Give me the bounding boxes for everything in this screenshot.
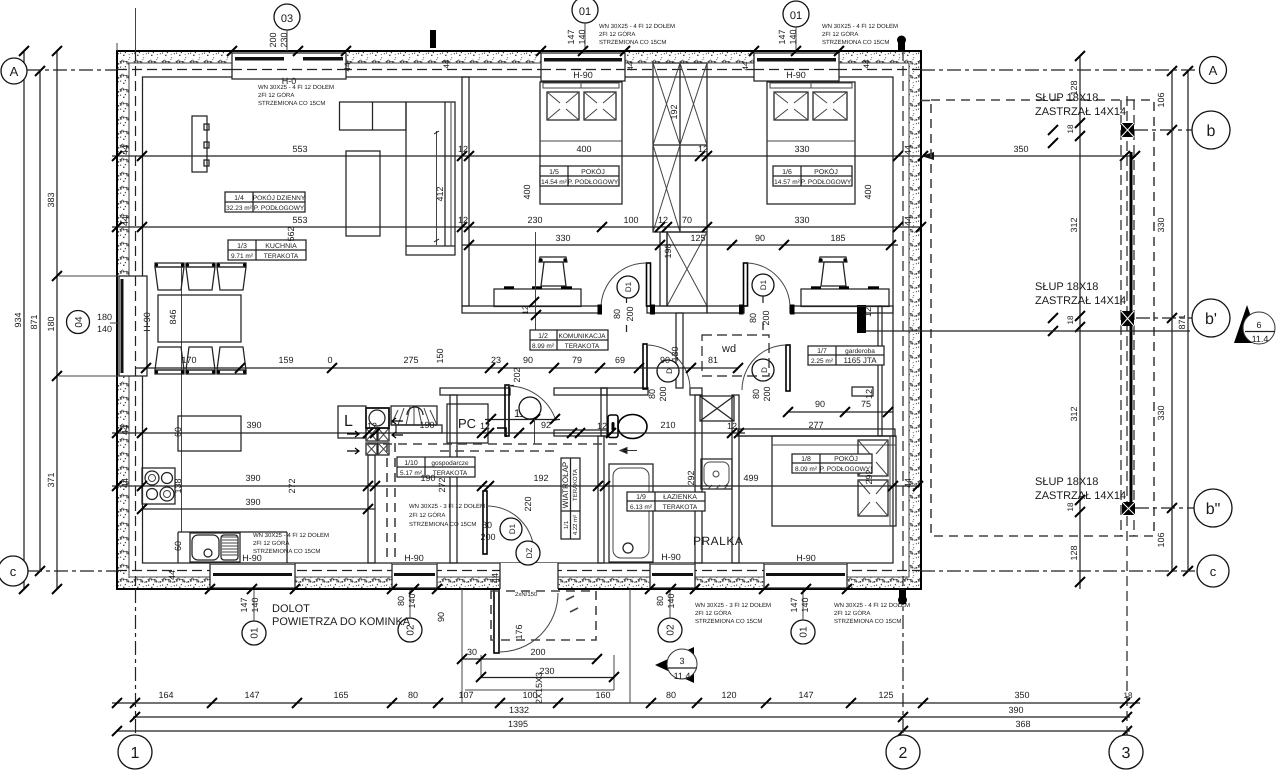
svg-text:147: 147 <box>239 597 249 612</box>
svg-text:1395: 1395 <box>508 719 528 729</box>
svg-text:18: 18 <box>1124 691 1133 700</box>
wall axis dashed top A <box>117 69 921 71</box>
svg-text:STRZEMIONA CO 15CM: STRZEMIONA CO 15CM <box>822 39 889 46</box>
svg-text:140: 140 <box>97 324 112 334</box>
svg-text:80: 80 <box>655 596 665 606</box>
svg-text:147: 147 <box>798 690 813 700</box>
door D1b bedroom 1/6 <box>739 263 795 330</box>
svg-text:871: 871 <box>1177 314 1187 329</box>
svg-text:846: 846 <box>168 309 178 324</box>
svg-text:44: 44 <box>903 216 913 226</box>
svg-text:350: 350 <box>1014 690 1029 700</box>
svg-text:STRZEMIONA CO 15CM: STRZEMIONA CO 15CM <box>695 618 762 625</box>
svg-text:STRZEMIONA CO 15CM: STRZEMIONA CO 15CM <box>409 521 476 528</box>
svg-text:106: 106 <box>1156 532 1166 547</box>
svg-text:b": b" <box>1206 501 1221 518</box>
svg-text:01: 01 <box>579 6 591 18</box>
svg-text:44: 44 <box>120 145 130 155</box>
kominek fireplace <box>366 406 442 433</box>
svg-text:PRALKA: PRALKA <box>693 534 743 548</box>
svg-text:WIATROŁAP: WIATROŁAP <box>561 462 570 509</box>
svg-text:185: 185 <box>830 233 845 243</box>
svg-text:44: 44 <box>120 478 130 488</box>
svg-text:75: 75 <box>861 399 871 409</box>
axis circles top <box>274 0 809 51</box>
svg-text:70: 70 <box>682 215 692 225</box>
svg-text:12: 12 <box>521 305 530 314</box>
svg-text:499: 499 <box>743 473 758 483</box>
svg-text:WN 30X25 - 3 FI 12 DOŁEM: WN 30X25 - 3 FI 12 DOŁEM <box>409 503 485 510</box>
svg-text:1: 1 <box>131 745 140 762</box>
svg-text:H-90: H-90 <box>786 70 806 80</box>
airflow arrows kitchen ducts <box>347 431 359 454</box>
svg-text:23: 23 <box>491 355 501 365</box>
svg-text:DOLOT: DOLOT <box>272 603 310 615</box>
svg-text:350: 350 <box>1013 144 1028 154</box>
svg-text:2: 2 <box>899 745 908 762</box>
svg-text:125: 125 <box>690 233 705 243</box>
svg-text:90: 90 <box>660 355 670 365</box>
svg-text:44: 44 <box>862 59 871 68</box>
chimney shaft block between bedrooms <box>653 63 707 232</box>
black chimney bar garderoba <box>857 305 866 333</box>
duct above niche <box>700 396 734 421</box>
svg-text:106: 106 <box>1156 92 1166 107</box>
svg-text:292: 292 <box>864 469 874 484</box>
dim row y486 <box>112 469 923 511</box>
svg-text:TERAKOTA: TERAKOTA <box>565 343 600 350</box>
svg-text:44: 44 <box>442 59 451 68</box>
wall segment right of bathroom door <box>690 388 702 395</box>
toilet corridor nook <box>608 415 647 454</box>
svg-text:553: 553 <box>292 144 307 154</box>
svg-text:92: 92 <box>541 420 551 430</box>
svg-text:80: 80 <box>647 389 657 399</box>
washbasin <box>701 459 732 489</box>
svg-text:330: 330 <box>555 233 570 243</box>
svg-text:44: 44 <box>903 478 913 488</box>
svg-text:368: 368 <box>1015 719 1030 729</box>
svg-text:12: 12 <box>458 215 468 225</box>
dim row 277 bedroom <box>736 420 896 436</box>
svg-text:02: 02 <box>666 624 677 636</box>
corridor south / bathroom north wall <box>440 388 510 395</box>
svg-text:140: 140 <box>407 593 417 608</box>
svg-text:400: 400 <box>576 144 591 154</box>
svg-text:H-90: H-90 <box>142 312 152 332</box>
svg-text:272: 272 <box>437 477 447 492</box>
svg-text:STRZEMIONA CO 15CM: STRZEMIONA CO 15CM <box>599 39 666 46</box>
chimney symbols top <box>430 30 907 605</box>
svg-text:30: 30 <box>467 647 477 657</box>
axis circles left <box>0 58 90 586</box>
dining table <box>158 295 241 342</box>
svg-text:44: 44 <box>120 216 130 226</box>
chairs top row <box>155 263 246 290</box>
svg-text:1/8: 1/8 <box>801 455 811 463</box>
column dim ticks <box>1048 125 1058 336</box>
svg-text:WN 30X25 - 3 FI 12 DOŁEM: WN 30X25 - 3 FI 12 DOŁEM <box>695 602 771 609</box>
svg-text:1/10: 1/10 <box>404 459 418 467</box>
wiatrolap rotated label <box>561 458 580 539</box>
svg-text:04: 04 <box>74 316 85 328</box>
svg-text:80: 80 <box>396 596 406 606</box>
wall axis dashed bottom c <box>117 570 921 572</box>
svg-text:1/1: 1/1 <box>563 520 570 529</box>
svg-text:200: 200 <box>530 647 545 657</box>
svg-text:79: 79 <box>572 355 582 365</box>
svg-text:330: 330 <box>794 144 809 154</box>
svg-text:81: 81 <box>708 355 718 365</box>
svg-text:12: 12 <box>864 389 874 399</box>
window W1 H-0 top living <box>232 52 346 86</box>
svg-text:160: 160 <box>595 690 610 700</box>
wd dashed box <box>702 335 769 376</box>
svg-text:H-90: H-90 <box>573 70 593 80</box>
dim rows right garderoba <box>783 307 893 417</box>
axis dashed lines A c <box>27 69 117 71</box>
svg-text:SŁUP 18X18: SŁUP 18X18 <box>1035 281 1098 293</box>
svg-text:3: 3 <box>1122 745 1131 762</box>
svg-text:1/5: 1/5 <box>549 168 559 176</box>
interior wall living/bedroom1-5 <box>462 77 469 306</box>
svg-text:KOMUNIKACJA: KOMUNIKACJA <box>559 333 607 340</box>
svg-text:ZASTRZAŁ 14X14: ZASTRZAŁ 14X14 <box>1035 106 1126 118</box>
dim row y433 <box>112 420 745 438</box>
svg-text:383: 383 <box>46 192 56 207</box>
garderoba door leaf <box>742 345 790 391</box>
svg-text:12: 12 <box>863 307 873 317</box>
svg-text:18: 18 <box>1066 502 1075 511</box>
svg-text:12: 12 <box>480 421 490 431</box>
svg-text:12: 12 <box>658 215 668 225</box>
svg-text:POKÓJ: POKÓJ <box>581 167 605 176</box>
svg-text:garderoba: garderoba <box>845 348 875 355</box>
axis circles right <box>1192 57 1232 588</box>
svg-text:140: 140 <box>788 29 798 44</box>
right dim col x1188 <box>1177 66 1193 576</box>
svg-text:POWIETRZA DO KOMINKA: POWIETRZA DO KOMINKA <box>272 616 411 628</box>
window jamb ticks top wall <box>227 46 844 56</box>
svg-text:WN 30X25 - 4 FI 12 DOŁEM: WN 30X25 - 4 FI 12 DOŁEM <box>822 23 898 30</box>
svg-text:272: 272 <box>287 478 297 493</box>
svg-text:292: 292 <box>686 470 696 485</box>
svg-text:44: 44 <box>167 570 177 580</box>
svg-text:330: 330 <box>1156 405 1166 420</box>
fridge box <box>338 406 366 438</box>
svg-text:01: 01 <box>250 627 261 639</box>
svg-text:12: 12 <box>698 144 708 154</box>
svg-text:934: 934 <box>13 312 23 327</box>
svg-text:1165 JTA: 1165 JTA <box>843 356 877 365</box>
svg-text:190: 190 <box>419 420 434 430</box>
svg-text:210: 210 <box>660 420 675 430</box>
duct boxes kitchen <box>366 428 389 455</box>
window W8 H-90 bathroom bottom <box>650 552 695 588</box>
room label boxes <box>225 192 305 212</box>
svg-text:4.22 m²: 4.22 m² <box>572 515 579 535</box>
svg-text:01: 01 <box>790 10 802 22</box>
window circles bottom <box>242 590 815 645</box>
svg-text:80: 80 <box>666 690 676 700</box>
svg-text:1/3: 1/3 <box>237 242 247 250</box>
svg-text:128: 128 <box>1069 545 1079 560</box>
shaft lower cell <box>667 232 707 306</box>
svg-text:140: 140 <box>250 597 260 612</box>
svg-text:1/7: 1/7 <box>817 347 827 355</box>
svg-text:230: 230 <box>279 32 289 47</box>
svg-text:198: 198 <box>663 243 673 258</box>
svg-text:POKÓJ DZIENNY: POKÓJ DZIENNY <box>253 194 306 202</box>
svg-text:165: 165 <box>333 690 348 700</box>
svg-text:11.4: 11.4 <box>674 671 691 681</box>
svg-text:200: 200 <box>762 386 772 401</box>
column b' <box>1121 311 1134 326</box>
svg-text:150: 150 <box>435 348 445 363</box>
svg-text:ZASTRZAŁ 14X14: ZASTRZAŁ 14X14 <box>1035 295 1126 307</box>
column b <box>1121 123 1134 137</box>
left dim col x24 <box>13 46 29 594</box>
svg-text:330: 330 <box>1156 217 1166 232</box>
south wall bedroom 1/6 with door opening <box>707 306 744 313</box>
svg-text:P. PODŁOGOWY: P. PODŁOGOWY <box>801 179 852 186</box>
wiatrolap inner door leaf+arc <box>483 491 540 565</box>
kitchen/gospodarcze wall <box>368 455 375 563</box>
svg-text:192: 192 <box>669 104 679 119</box>
svg-text:390: 390 <box>245 473 260 483</box>
svg-text:D: D <box>665 368 674 374</box>
svg-text:312: 312 <box>1069 217 1079 232</box>
svg-text:553: 553 <box>292 215 307 225</box>
svg-text:TERAKOTA: TERAKOTA <box>572 469 579 501</box>
svg-text:A: A <box>1209 63 1218 78</box>
svg-text:POKÓJ: POKÓJ <box>834 454 858 463</box>
bedroom 1/8 north wall <box>738 429 895 436</box>
garderoba east wall <box>878 306 882 436</box>
svg-text:44: 44 <box>120 425 130 435</box>
svg-text:11.4: 11.4 <box>1252 334 1269 344</box>
svg-text:WN 30X25 - 4 FI 12 DOŁEM: WN 30X25 - 4 FI 12 DOŁEM <box>258 84 334 91</box>
svg-text:90: 90 <box>523 355 533 365</box>
dim row y245 <box>462 233 898 250</box>
window jamb ticks bottom wall <box>205 584 852 594</box>
column b'' <box>1122 502 1135 515</box>
svg-text:8.09 m²: 8.09 m² <box>795 466 818 473</box>
sofa dim line 412 <box>436 131 438 245</box>
svg-text:gospodarcze: gospodarcze <box>431 460 469 467</box>
svg-text:D: D <box>760 367 769 373</box>
svg-text:200: 200 <box>658 386 668 401</box>
svg-text:390: 390 <box>1008 705 1023 715</box>
svg-text:164: 164 <box>158 690 173 700</box>
svg-text:01: 01 <box>799 626 810 638</box>
corridor right wall <box>676 313 683 388</box>
svg-text:SŁUP 18X18: SŁUP 18X18 <box>1035 92 1098 104</box>
svg-text:390: 390 <box>246 420 261 430</box>
svg-text:60: 60 <box>173 427 183 437</box>
svg-text:200: 200 <box>761 310 771 325</box>
window W2 H-90 bedroom 1/5 <box>541 52 625 81</box>
window W3 H-90 bedroom 1/6 <box>754 52 839 81</box>
D1 circles bedroom doors <box>612 274 774 326</box>
svg-text:12: 12 <box>367 421 377 431</box>
south wall bedroom 1/5 with door opening <box>462 306 601 313</box>
svg-text:P. PODŁOGOWY: P. PODŁOGOWY <box>568 179 619 186</box>
svg-text:14.54 m²: 14.54 m² <box>541 179 567 186</box>
svg-text:125: 125 <box>878 690 893 700</box>
door D1a bedroom 1/5 <box>598 263 656 332</box>
kitchen stove <box>142 468 175 504</box>
bed bedroom 1/5 <box>540 82 622 204</box>
svg-text:2FI 12 GÓRA: 2FI 12 GÓRA <box>409 511 445 519</box>
bottom chain y717 <box>130 705 1132 722</box>
svg-text:0: 0 <box>327 355 332 365</box>
svg-text:44: 44 <box>490 573 500 583</box>
bathtub <box>609 464 653 562</box>
svg-text:90: 90 <box>815 399 825 409</box>
svg-text:275: 275 <box>403 355 418 365</box>
svg-text:147: 147 <box>789 597 799 612</box>
svg-text:3: 3 <box>679 656 684 666</box>
svg-text:176: 176 <box>514 624 524 639</box>
dim row y156 <box>112 144 1140 161</box>
dim row y368 <box>135 346 743 382</box>
wall axis dashed right 2 <box>902 51 904 589</box>
svg-text:147: 147 <box>777 29 787 44</box>
svg-text:44: 44 <box>903 145 913 155</box>
svg-text:14.57 m²: 14.57 m² <box>774 179 800 186</box>
svg-text:6.13 m²: 6.13 m² <box>630 504 653 511</box>
svg-text:80: 80 <box>751 389 761 399</box>
svg-text:STRZEMIONA CO 15CM: STRZEMIONA CO 15CM <box>258 100 325 107</box>
svg-text:b': b' <box>1205 311 1217 328</box>
wall axis dashed left 1 <box>135 51 137 589</box>
svg-text:871: 871 <box>29 314 39 329</box>
svg-text:STRZEMIONA CO 15CM: STRZEMIONA CO 15CM <box>253 548 320 555</box>
svg-text:200: 200 <box>480 532 495 542</box>
sofa living room <box>340 102 456 255</box>
svg-text:44: 44 <box>741 61 750 70</box>
svg-text:390: 390 <box>245 497 260 507</box>
coffee table <box>346 151 380 236</box>
svg-text:190: 190 <box>420 473 435 483</box>
svg-text:D1: D1 <box>759 279 768 290</box>
svg-text:2FI 12 GÓRA: 2FI 12 GÓRA <box>695 609 731 617</box>
svg-text:330: 330 <box>794 215 809 225</box>
svg-text:H-90: H-90 <box>404 553 424 563</box>
svg-text:90: 90 <box>436 612 446 622</box>
porch <box>436 589 630 704</box>
svg-text:60: 60 <box>173 541 183 551</box>
svg-text:140: 140 <box>800 597 810 612</box>
wall under shaft <box>660 232 667 306</box>
svg-text:80: 80 <box>748 313 758 323</box>
bed bedroom 1/6 <box>767 82 855 204</box>
svg-text:140: 140 <box>577 29 587 44</box>
wardrobe living room <box>192 116 209 172</box>
roof pitch triangle bottom <box>655 647 697 683</box>
kitchen bottom counter <box>178 532 287 563</box>
svg-text:SŁUP 18X18: SŁUP 18X18 <box>1035 476 1098 488</box>
svg-text:1/2: 1/2 <box>538 332 548 340</box>
svg-text:8.99 m²: 8.99 m² <box>532 343 555 350</box>
beam thick line <box>1130 152 1133 502</box>
svg-text:c: c <box>1210 564 1217 579</box>
svg-text:1/6: 1/6 <box>782 168 792 176</box>
wiatrolap/bathroom wall <box>598 436 604 563</box>
bed bedroom 1/8 horizontal <box>772 436 896 526</box>
svg-text:32.23 m²: 32.23 m² <box>226 205 252 212</box>
svg-text:2.25 m²: 2.25 m² <box>811 358 834 365</box>
bottom chain y731 <box>112 719 1132 736</box>
witness line kitchen <box>181 263 183 532</box>
svg-text:D1: D1 <box>624 281 633 292</box>
svg-text:120: 120 <box>721 690 736 700</box>
right dim col x1080 <box>1066 51 1085 589</box>
svg-text:TERAKOTA: TERAKOTA <box>663 504 698 511</box>
axis 3 dashed <box>1126 96 1128 735</box>
svg-text:12: 12 <box>458 144 468 154</box>
svg-text:D1: D1 <box>508 523 517 534</box>
exterior wall stipple bands <box>117 51 921 589</box>
axis circles bottom <box>118 735 1143 769</box>
svg-text:44: 44 <box>626 61 635 70</box>
svg-text:202: 202 <box>512 367 522 382</box>
bottom main chain y703 <box>112 690 1140 708</box>
window W9 H-90 bedroom 1/8 bottom <box>764 553 847 588</box>
svg-text:80: 80 <box>612 309 622 319</box>
svg-text:80: 80 <box>408 690 418 700</box>
long line at b' <box>866 330 1190 332</box>
svg-text:PC: PC <box>458 416 476 431</box>
svg-text:c: c <box>10 564 17 579</box>
svg-text:2FI 12 GÓRA: 2FI 12 GÓRA <box>258 91 294 99</box>
svg-text:69: 69 <box>615 355 625 365</box>
bathroom door <box>643 344 690 389</box>
svg-text:138: 138 <box>173 478 183 493</box>
svg-text:H-90: H-90 <box>796 553 816 563</box>
chairs bottom row <box>155 347 246 374</box>
svg-text:1332: 1332 <box>509 705 529 715</box>
svg-text:2FI 12 GÓRA: 2FI 12 GÓRA <box>834 609 870 617</box>
window W5 H-90 kitchen bottom <box>210 553 295 588</box>
svg-text:44: 44 <box>343 62 352 71</box>
svg-text:147: 147 <box>244 690 259 700</box>
svg-text:371: 371 <box>46 472 56 487</box>
svg-text:6: 6 <box>1256 320 1261 330</box>
svg-text:147: 147 <box>566 29 576 44</box>
corridor/wiatrolap wall with 92 opening <box>554 430 607 436</box>
svg-text:wd: wd <box>721 343 736 355</box>
kitchen upper counter <box>178 416 241 451</box>
svg-text:90: 90 <box>755 233 765 243</box>
svg-text:1/4: 1/4 <box>234 194 244 202</box>
svg-text:WN 30X25 - 4 FI 12 DOŁEM: WN 30X25 - 4 FI 12 DOŁEM <box>834 602 910 609</box>
svg-text:WN 30X25 - 4 FI 12 DOŁEM: WN 30X25 - 4 FI 12 DOŁEM <box>253 532 329 539</box>
exterior wall inner face <box>143 77 894 563</box>
exterior wall outer edge <box>117 51 921 589</box>
svg-text:180: 180 <box>97 312 112 322</box>
svg-text:107: 107 <box>458 690 473 700</box>
bathroom west wall upper <box>601 388 607 436</box>
svg-text:2FI 12 GÓRA: 2FI 12 GÓRA <box>822 30 858 38</box>
svg-text:2xN/150: 2xN/150 <box>515 591 538 598</box>
svg-text:130: 130 <box>670 346 680 361</box>
svg-text:140: 140 <box>666 593 676 608</box>
svg-text:WN 30X25 - 4 FI 12 DOŁEM: WN 30X25 - 4 FI 12 DOŁEM <box>599 23 675 30</box>
exterior wall stipple inner edge <box>129 63 909 577</box>
svg-text:18: 18 <box>1066 315 1075 324</box>
